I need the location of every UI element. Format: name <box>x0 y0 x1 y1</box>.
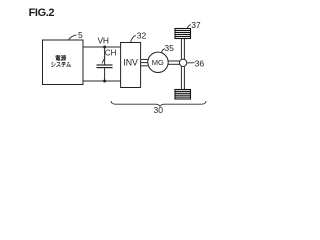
svg-text:5: 5 <box>78 30 83 40</box>
wire bottom rail <box>83 80 121 82</box>
leader for 5 <box>68 35 77 41</box>
wire VH top rail <box>83 46 121 48</box>
svg-text:35: 35 <box>164 43 174 53</box>
shaft MG to diff (upper line) <box>168 60 179 62</box>
svg-text:CH: CH <box>105 49 117 58</box>
wheel bottom <box>175 90 191 100</box>
svg-text:36: 36 <box>195 59 205 69</box>
differential gear 36 <box>179 59 186 66</box>
label システム <box>51 62 71 67</box>
leader for CH <box>102 57 105 64</box>
wire cap bottom lead <box>104 68 106 81</box>
axle lower (right line) <box>183 66 185 90</box>
wire 3-phase u <box>141 58 148 60</box>
wire 3-phase w <box>141 65 148 67</box>
svg-text:INV: INV <box>123 58 138 68</box>
power supply box 5 (電源システム) <box>43 40 84 85</box>
leader for 37 <box>187 25 191 29</box>
axle upper (right line) <box>183 39 185 60</box>
svg-text:32: 32 <box>137 31 147 41</box>
svg-text:VH: VH <box>98 36 109 46</box>
wire 3-phase v <box>141 62 148 64</box>
wheel top 37 <box>175 29 191 39</box>
leader for 36 <box>187 62 195 64</box>
label 電源 <box>56 55 67 61</box>
capacitor CH <box>97 65 113 68</box>
shaft MG to diff (lower line) <box>168 63 179 65</box>
wire cap top lead <box>104 47 106 65</box>
brace for 30 <box>111 101 206 106</box>
leader for 35 <box>161 49 164 53</box>
inverter box U32 <box>121 43 141 88</box>
motor-generator MG 35 <box>148 52 168 72</box>
svg-text:37: 37 <box>191 20 201 30</box>
junction dot bottom <box>103 80 106 83</box>
axle upper (left line) <box>180 39 182 60</box>
junction dot top <box>103 46 106 49</box>
svg-text:MG: MG <box>152 58 164 67</box>
leader for 32 <box>131 35 136 42</box>
axle lower (left line) <box>180 66 182 90</box>
svg-text:30: 30 <box>154 105 164 115</box>
svg-text:FIG.2: FIG.2 <box>29 7 55 19</box>
